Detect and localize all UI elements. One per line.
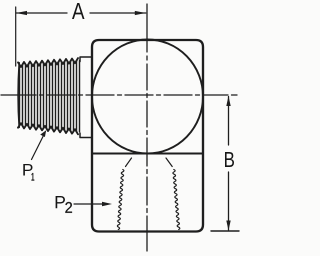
elbow body outline [92, 40, 203, 232]
internal thread taper dash right [166, 158, 172, 167]
leader line P2 [74, 203, 104, 205]
thread collar [80, 57, 92, 138]
dimension B top arrowhead [226, 96, 230, 106]
horizontal centerline [1, 94, 237, 96]
vertical centerline [146, 4, 148, 251]
label P1 [23, 164, 32, 175]
internal thread hidden zigzag left [117, 170, 124, 230]
dimension A right arrowhead [135, 11, 146, 15]
body divider line [92, 153, 203, 155]
male thread flank lines [20, 61, 80, 132]
internal thread hidden zigzag right [173, 170, 180, 230]
dimension B line [228, 97, 230, 231]
male thread top crest [18, 58, 78, 67]
label B [225, 152, 234, 167]
dimension B bottom arrowhead [226, 221, 230, 231]
dimension A extension line left [15, 7, 17, 66]
label P2 [56, 196, 65, 208]
dimension A left arrowhead [16, 11, 27, 15]
body circle [92, 40, 203, 154]
arrowhead P1 [40, 130, 46, 137]
label A [72, 3, 84, 19]
male thread bottom crest [18, 123, 78, 134]
dimension B bottom extension line [211, 230, 239, 232]
male pipe thread end face [18, 63, 19, 128]
leader line P1 [32, 135, 45, 160]
internal thread taper dash left [126, 158, 132, 167]
dimension A line [16, 12, 146, 14]
arrowhead P2 [102, 202, 112, 206]
